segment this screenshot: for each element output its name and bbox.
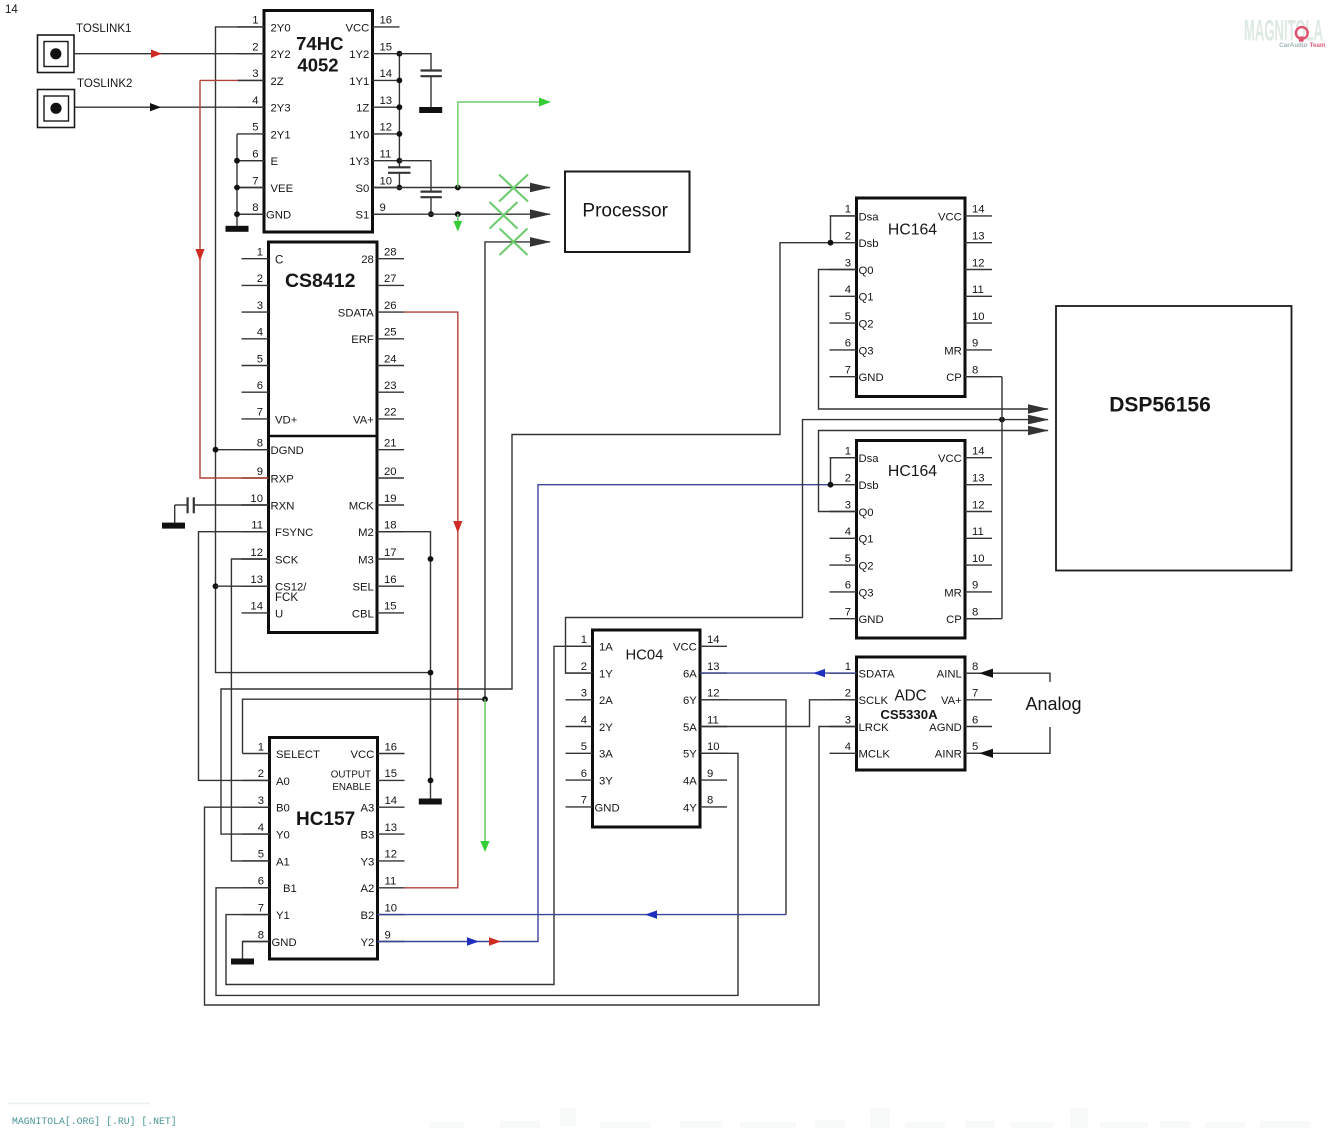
junction 1Y0 pin12 — [397, 131, 403, 137]
svg-text:4: 4 — [252, 95, 258, 107]
svg-text:10: 10 — [385, 902, 398, 914]
svg-text:11: 11 — [972, 526, 984, 538]
svg-text:Q1: Q1 — [859, 292, 874, 304]
svg-text:3: 3 — [581, 688, 587, 700]
svg-text:RXN: RXN — [271, 500, 295, 512]
junction at 2Y0/OE riser crossing — [428, 670, 434, 676]
svg-text:1: 1 — [581, 634, 587, 646]
no-connect cross X1 on S0 line — [499, 175, 528, 202]
arrow into Processor line3 — [530, 237, 551, 247]
svg-text:1: 1 — [257, 247, 263, 259]
svg-text:CP: CP — [946, 614, 962, 626]
wire DGND to 2Y0 vertical — [216, 449, 269, 451]
svg-text:Dsa: Dsa — [859, 211, 880, 223]
svg-text:27: 27 — [384, 273, 397, 285]
svg-text:M3: M3 — [358, 554, 374, 566]
svg-text:B3: B3 — [360, 830, 374, 842]
wire HC164#1 Dsa link — [831, 216, 857, 243]
svg-text:4: 4 — [258, 822, 264, 834]
connector TOSLINK2 — [38, 78, 133, 128]
junction OUTPUT ENABLE — [428, 778, 434, 784]
arrow left into AINL — [979, 669, 993, 678]
svg-text:M2: M2 — [358, 527, 374, 539]
no-connect cross X3 on line3 — [500, 229, 528, 256]
svg-text:2Y0: 2Y0 — [271, 22, 291, 34]
junction CP node on line2 — [999, 417, 1005, 423]
arrow into Processor line1 — [530, 183, 551, 193]
junction 1Y2 pin15 — [397, 51, 403, 57]
svg-text:1A: 1A — [599, 642, 613, 654]
wire green vertical with arrow below node A — [480, 699, 489, 852]
wire SCK to HC157 A1 — [231, 559, 269, 861]
svg-text:1Y3: 1Y3 — [349, 156, 369, 168]
svg-text:MR: MR — [944, 587, 962, 599]
svg-text:4: 4 — [581, 714, 587, 726]
svg-text:15: 15 — [380, 42, 393, 54]
wire U1 right-side bus pins 15-10 — [398, 54, 400, 188]
wire S1 to Processor — [373, 213, 551, 215]
svg-text:DSP56156: DSP56156 — [1109, 394, 1211, 417]
svg-text:A1: A1 — [276, 856, 290, 868]
svg-text:23: 23 — [384, 380, 397, 392]
svg-text:VEE: VEE — [271, 183, 294, 195]
svg-text:13: 13 — [385, 822, 398, 834]
svg-text:U: U — [275, 608, 283, 620]
arrow into DSP line2 — [1028, 415, 1049, 425]
svg-text:74HC: 74HC — [296, 33, 343, 54]
svg-text:5: 5 — [845, 553, 851, 565]
IC U5 HC164 shift register 1 — [830, 198, 993, 397]
svg-text:14: 14 — [5, 4, 18, 16]
svg-text:2: 2 — [845, 231, 851, 243]
svg-text:HC164: HC164 — [888, 463, 937, 480]
svg-text:3: 3 — [258, 795, 264, 807]
svg-text:VCC: VCC — [673, 642, 697, 654]
wire U1 pins 5-8 common bus to ground — [237, 134, 264, 226]
svg-text:3: 3 — [845, 257, 851, 269]
svg-text:14: 14 — [380, 68, 393, 80]
svg-text:9: 9 — [257, 466, 263, 478]
svg-text:6: 6 — [258, 876, 264, 888]
arrow blue left on B2 wire — [645, 910, 657, 918]
svg-text:7: 7 — [258, 902, 264, 914]
svg-text:5: 5 — [258, 849, 264, 861]
svg-text:RXP: RXP — [271, 473, 294, 485]
svg-text:19: 19 — [384, 493, 397, 505]
svg-text:6: 6 — [257, 380, 263, 392]
svg-text:9: 9 — [707, 768, 713, 780]
svg-text:HC164: HC164 — [888, 221, 937, 238]
svg-text:1Y2: 1Y2 — [349, 49, 369, 61]
svg-text:Y0: Y0 — [276, 830, 290, 842]
svg-text:2: 2 — [845, 688, 851, 700]
wire red riser from 2Z to CS8412 RXP — [200, 80, 269, 478]
svg-text:12: 12 — [972, 257, 985, 269]
wire TOSLINK1 to U1 pin 2 (2Y2) — [74, 53, 264, 55]
svg-text:5A: 5A — [683, 722, 697, 734]
svg-text:28: 28 — [384, 247, 397, 259]
logo MAGNITOLA CarAudio Team — [1244, 15, 1326, 50]
ground bar below C1 — [419, 107, 442, 113]
wire HC157 SELECT from node A — [243, 699, 486, 753]
svg-text:A3: A3 — [360, 803, 374, 815]
svg-text:Q1: Q1 — [859, 534, 874, 546]
wire HC04 5A to ADC SCLK — [700, 700, 857, 727]
arrow red direction marker on RXP riser — [195, 249, 204, 261]
junction 1Z pin13 — [397, 104, 403, 110]
wire HC164#1 Q0 to DSP line1 — [819, 270, 1049, 410]
svg-text:6: 6 — [252, 149, 258, 161]
svg-text:2Y: 2Y — [599, 722, 613, 734]
svg-text:Analog: Analog — [1025, 694, 1081, 714]
svg-text:7: 7 — [252, 175, 258, 187]
wire HC157 Y1 to HC04 1A — [226, 646, 593, 984]
svg-text:5Y: 5Y — [683, 749, 697, 761]
wire pin15 to capacitor C1 — [399, 54, 431, 71]
svg-text:CP: CP — [946, 372, 962, 384]
svg-text:VCC: VCC — [345, 22, 369, 34]
ground bar below HC157 GND — [231, 959, 254, 965]
svg-text:MCLK: MCLK — [859, 749, 891, 761]
svg-text:S0: S0 — [355, 183, 369, 195]
svg-text:2: 2 — [252, 42, 258, 54]
svg-text:4: 4 — [257, 327, 263, 339]
svg-text:3: 3 — [845, 499, 851, 511]
svg-text:26: 26 — [384, 300, 397, 312]
svg-text:VCC: VCC — [350, 749, 374, 761]
faint artifact line bottom left — [8, 1103, 150, 1105]
IC U4 HC04 hex inverter — [566, 630, 728, 827]
svg-text:1: 1 — [845, 661, 851, 673]
svg-text:Q0: Q0 — [859, 265, 874, 277]
capacitor C1 — [421, 71, 442, 108]
wire blue HC157 Y2 to HC164#2 Dsb — [378, 485, 831, 942]
svg-text:2: 2 — [581, 661, 587, 673]
wire HC157 Y0 to HC164#1 Dsa/Dsb — [221, 243, 831, 834]
svg-text:9: 9 — [972, 580, 978, 592]
svg-text:9: 9 — [972, 338, 978, 350]
svg-text:C: C — [275, 255, 283, 267]
IC U6 HC164 shift register 2 — [830, 441, 993, 639]
svg-text:VA+: VA+ — [941, 695, 962, 707]
svg-text:15: 15 — [385, 768, 398, 780]
svg-text:18: 18 — [384, 520, 397, 532]
svg-text:GND: GND — [272, 937, 297, 949]
svg-text:5: 5 — [845, 311, 851, 323]
svg-text:1: 1 — [845, 446, 851, 458]
junction 1Y3 pin11 — [397, 158, 403, 164]
junction DGND — [213, 447, 219, 453]
wire HC164 CP common vertical — [965, 377, 1002, 619]
svg-text:12: 12 — [385, 849, 398, 861]
svg-text:A0: A0 — [276, 776, 290, 788]
svg-text:Q3: Q3 — [859, 345, 874, 357]
svg-text:8: 8 — [707, 795, 713, 807]
svg-text:B0: B0 — [276, 803, 290, 815]
svg-text:3: 3 — [257, 300, 263, 312]
svg-text:CS5330A: CS5330A — [880, 707, 938, 722]
svg-text:14: 14 — [972, 204, 985, 216]
svg-text:6: 6 — [845, 580, 851, 592]
svg-text:SCLK: SCLK — [859, 695, 889, 707]
capacitor C3 — [421, 192, 442, 215]
arrow blue right on Y2 wire — [467, 937, 479, 945]
svg-text:22: 22 — [384, 407, 397, 419]
svg-text:11: 11 — [380, 149, 392, 161]
svg-text:14: 14 — [250, 601, 263, 613]
svg-text:21: 21 — [384, 438, 397, 450]
svg-text:7: 7 — [845, 365, 851, 377]
svg-text:8: 8 — [258, 929, 264, 941]
svg-text:Y3: Y3 — [360, 856, 374, 868]
svg-text:Q2: Q2 — [859, 561, 874, 573]
ground bar for C4 — [162, 523, 185, 529]
ground bar below U1 GND — [226, 226, 249, 232]
no-connect cross X2 on S1 line — [490, 202, 518, 229]
svg-text:13: 13 — [972, 231, 985, 243]
svg-text:1Z: 1Z — [356, 103, 369, 115]
capacitor C4 on RXN input — [175, 497, 269, 522]
svg-text:Q3: Q3 — [859, 587, 874, 599]
svg-text:6: 6 — [972, 714, 978, 726]
junction S1 node — [455, 211, 461, 217]
svg-text:Dsa: Dsa — [859, 453, 880, 465]
svg-text:2: 2 — [257, 273, 263, 285]
svg-text:1: 1 — [258, 741, 264, 753]
svg-text:9: 9 — [385, 929, 391, 941]
arrow red direction marker on SDATA riser — [453, 521, 462, 533]
svg-text:SDATA: SDATA — [338, 308, 374, 320]
svg-text:3: 3 — [845, 714, 851, 726]
connector TOSLINK1 — [38, 23, 132, 73]
svg-text:MAGNITOLA[.ORG] [.RU] [.NET]: MAGNITOLA[.ORG] [.RU] [.NET] — [12, 1116, 177, 1127]
wire U1 pin3 2Z stub to red riser — [238, 79, 264, 81]
arrow red on TOSLINK1 wire — [151, 50, 162, 58]
svg-text:16: 16 — [385, 741, 398, 753]
wire CS12/FCK to 2Y0 vertical — [216, 585, 269, 587]
svg-text:14: 14 — [972, 446, 985, 458]
svg-text:ENABLE: ENABLE — [332, 782, 371, 793]
svg-text:11: 11 — [251, 520, 263, 532]
svg-text:6: 6 — [845, 338, 851, 350]
svg-text:SDATA: SDATA — [859, 669, 895, 681]
svg-text:10: 10 — [380, 175, 393, 187]
svg-text:FSYNC: FSYNC — [275, 527, 313, 539]
wire blue horizontal B2 — [378, 914, 787, 916]
arrow into DSP line3 — [1028, 426, 1049, 436]
wire S0 to Processor — [373, 187, 551, 189]
svg-text:E: E — [271, 156, 279, 168]
svg-text:7: 7 — [257, 407, 263, 419]
svg-text:SELECT: SELECT — [276, 749, 320, 761]
svg-text:25: 25 — [384, 327, 397, 339]
svg-text:10: 10 — [707, 741, 720, 753]
wire green S0 branch with arrow — [458, 102, 549, 188]
svg-text:AINR: AINR — [935, 749, 962, 761]
junction S0 node — [455, 185, 461, 191]
svg-text:5: 5 — [581, 741, 587, 753]
capacitor C2 inline in right bus — [388, 167, 411, 173]
svg-text:FCK: FCK — [275, 592, 298, 604]
svg-text:12: 12 — [380, 122, 393, 134]
wire SDATA red: CS8412 pin26 to HC157 A2 pin11 — [404, 312, 458, 888]
svg-text:10: 10 — [250, 493, 263, 505]
svg-text:2Y2: 2Y2 — [271, 49, 291, 61]
svg-text:ERF: ERF — [351, 334, 374, 346]
svg-text:AINL: AINL — [937, 669, 962, 681]
svg-text:CBL: CBL — [352, 608, 374, 620]
svg-text:12: 12 — [707, 688, 720, 700]
svg-text:14: 14 — [707, 634, 720, 646]
svg-text:8: 8 — [257, 438, 263, 450]
svg-text:3: 3 — [252, 68, 258, 80]
arrow green right — [539, 98, 551, 107]
svg-text:HC157: HC157 — [296, 809, 355, 830]
junction U1 pin8 — [234, 211, 240, 217]
svg-text:Q0: Q0 — [859, 507, 874, 519]
U3 pin 15 label OUTPUT ENABLE — [331, 770, 372, 794]
svg-text:CS8412: CS8412 — [285, 270, 356, 292]
wire red segment on 2Z pin — [200, 79, 238, 81]
svg-text:2Y1: 2Y1 — [271, 129, 291, 141]
svg-text:GND: GND — [266, 210, 291, 222]
svg-text:DGND: DGND — [271, 445, 304, 457]
svg-text:12: 12 — [972, 499, 985, 511]
svg-text:8: 8 — [972, 365, 978, 377]
svg-text:8: 8 — [252, 202, 258, 214]
arrow left into AINR — [979, 749, 993, 758]
svg-text:TOSLINK2: TOSLINK2 — [77, 78, 132, 90]
svg-text:Y2: Y2 — [360, 937, 374, 949]
svg-text:11: 11 — [707, 714, 719, 726]
svg-text:2: 2 — [258, 768, 264, 780]
svg-text:4Y: 4Y — [683, 802, 697, 814]
svg-text:4: 4 — [845, 526, 851, 538]
svg-text:GND: GND — [595, 802, 620, 814]
wire HC164#2 Dsa link — [831, 458, 857, 485]
svg-text:12: 12 — [250, 547, 263, 559]
junction Dsa/Dsb #2 — [828, 482, 834, 488]
svg-text:2: 2 — [845, 473, 851, 485]
junction S0 pin10 — [397, 185, 403, 191]
arrow blue left on SDATA wire — [813, 669, 825, 677]
svg-text:OUTPUT: OUTPUT — [331, 770, 371, 781]
junction node A on processor line3 vertical — [482, 696, 488, 702]
svg-text:SEL: SEL — [352, 582, 373, 594]
svg-text:2Z: 2Z — [271, 76, 284, 88]
wire HC04 1Y to DSP line2 — [566, 420, 1049, 673]
svg-text:VA+: VA+ — [353, 414, 374, 426]
svg-text:AGND: AGND — [929, 722, 962, 734]
svg-text:A2: A2 — [360, 883, 374, 895]
svg-text:4052: 4052 — [297, 54, 338, 75]
block DSP56156 — [1056, 306, 1292, 571]
svg-text:LRCK: LRCK — [859, 722, 890, 734]
IC U3 HC157 quad 2-input multiplexer — [243, 738, 405, 960]
svg-text:SCK: SCK — [275, 554, 299, 566]
svg-text:11: 11 — [972, 284, 984, 296]
svg-text:TOSLINK1: TOSLINK1 — [76, 23, 131, 35]
svg-text:5: 5 — [972, 741, 978, 753]
IC U7 ADC CS5330A — [830, 657, 993, 770]
svg-text:CarAudio: CarAudio — [1279, 42, 1307, 49]
svg-text:9: 9 — [380, 202, 386, 214]
svg-text:4A: 4A — [683, 776, 697, 788]
svg-text:17: 17 — [384, 547, 397, 559]
junction C3 on S1 wire — [428, 211, 434, 217]
svg-text:6A: 6A — [683, 669, 697, 681]
svg-text:13: 13 — [250, 574, 263, 586]
svg-text:13: 13 — [380, 95, 393, 107]
svg-text:B1: B1 — [283, 883, 297, 895]
svg-text:7: 7 — [581, 795, 587, 807]
arrow red right on Y2 wire — [489, 937, 501, 945]
svg-text:VCC: VCC — [938, 211, 962, 223]
wire HC157 GND to ground — [243, 942, 270, 959]
svg-text:S1: S1 — [355, 210, 369, 222]
junction Dsa/Dsb #1 — [828, 240, 834, 246]
svg-text:8: 8 — [972, 661, 978, 673]
svg-text:1: 1 — [845, 204, 851, 216]
svg-text:VD+: VD+ — [275, 414, 298, 426]
svg-text:Dsb: Dsb — [859, 480, 879, 492]
svg-text:16: 16 — [380, 15, 393, 27]
svg-text:24: 24 — [384, 353, 397, 365]
svg-text:6Y: 6Y — [683, 695, 697, 707]
IC U2 CS8412 digital audio receiver — [242, 242, 405, 633]
wire HC164#2 Q0 to DSP line3 — [819, 431, 1049, 512]
svg-text:8: 8 — [972, 607, 978, 619]
wire blue HC04 6Y to HC157 B2 — [700, 700, 786, 915]
junction M3 — [428, 556, 434, 562]
wire net 2Y0: U1 pin1 down to M2/M3 node — [216, 27, 431, 673]
svg-text:Y1: Y1 — [276, 910, 290, 922]
svg-text:13: 13 — [972, 473, 985, 485]
svg-text:1Y: 1Y — [599, 669, 613, 681]
ground bar below OUTPUT ENABLE — [419, 799, 442, 805]
wire ADC AINL analog input — [965, 673, 1050, 682]
svg-text:20: 20 — [384, 466, 397, 478]
arrow green down below S1 node — [453, 214, 462, 231]
svg-text:7: 7 — [845, 607, 851, 619]
svg-text:6: 6 — [581, 768, 587, 780]
wire pin11 1Y3 to capacitor C3 — [399, 161, 431, 192]
svg-text:GND: GND — [859, 372, 884, 384]
svg-text:2A: 2A — [599, 695, 613, 707]
svg-text:HC04: HC04 — [625, 648, 663, 664]
svg-text:3A: 3A — [599, 749, 613, 761]
junction U1 pin6 — [234, 158, 240, 164]
svg-text:10: 10 — [972, 311, 985, 323]
svg-text:MCK: MCK — [349, 500, 375, 512]
wire TOSLINK2 to U1 pin 4 (2Y3) — [75, 106, 264, 108]
faint bottom artifact band — [430, 1108, 1310, 1128]
svg-text:1Y0: 1Y0 — [349, 129, 369, 141]
svg-text:Dsb: Dsb — [859, 238, 879, 250]
svg-text:14: 14 — [385, 795, 398, 807]
svg-text:2Y3: 2Y3 — [271, 103, 291, 115]
wire HC157 B1 to HC04 5Y — [216, 753, 738, 995]
svg-text:7: 7 — [972, 688, 978, 700]
svg-text:Team: Team — [1310, 42, 1326, 49]
svg-text:28: 28 — [361, 254, 374, 266]
wire third line to Processor from lower vertical — [485, 242, 550, 699]
svg-text:GND: GND — [859, 614, 884, 626]
svg-text:4: 4 — [845, 284, 851, 296]
wire ADC AINR analog input — [965, 727, 1050, 753]
wire HC157 B0 to ADC LRCK — [205, 727, 857, 1006]
svg-text:MR: MR — [944, 345, 962, 357]
